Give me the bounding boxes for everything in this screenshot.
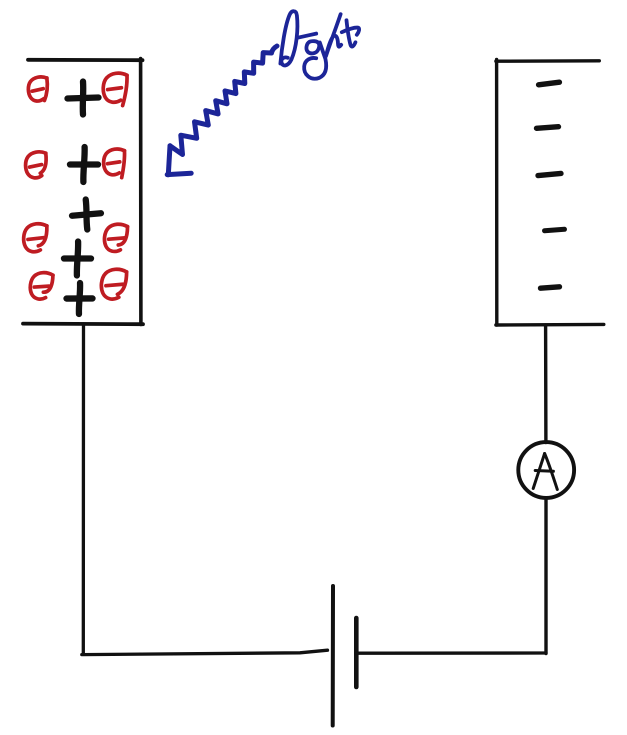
- electron e1 (row1 left): [28, 77, 48, 102]
- arrowhead of light ray: [167, 146, 191, 175]
- charge +3 (row3): [71, 199, 102, 230]
- left plate (photocathode): [23, 59, 143, 325]
- light label (handwritten): [280, 11, 359, 78]
- light ray squiggle (wavy arrow shaft): [170, 46, 277, 155]
- charge +1 (row1): [68, 82, 99, 115]
- negative charge -4: [545, 229, 565, 230]
- electron e3 (row2 left): [25, 152, 47, 179]
- wire from right plate down to ammeter: [544, 325, 548, 443]
- electron e8 (row6 right): [100, 268, 127, 300]
- battery long plate (positive): [331, 586, 335, 726]
- bottom left wire to battery: [82, 650, 328, 654]
- negative charge -2: [537, 127, 559, 129]
- battery short plate (negative): [354, 618, 359, 687]
- charge +2 (row2): [69, 147, 98, 183]
- charge +4 (row5): [63, 241, 91, 276]
- negative charge -5: [541, 287, 560, 288]
- wire from ammeter down to bottom: [544, 498, 547, 654]
- wire from left plate down: [82, 324, 85, 654]
- charge +5 (row7): [66, 283, 93, 315]
- electron e6 (row4 right): [103, 223, 127, 252]
- negative charge -3: [538, 173, 561, 175]
- electron e2 (row1 right): [103, 73, 128, 106]
- electron e7 (row6 left): [29, 271, 53, 300]
- right plate (anode): [496, 60, 604, 326]
- electron e5 (row4 left): [23, 223, 47, 252]
- bottom right wire from battery to ammeter branch: [357, 651, 547, 655]
- ammeter A: [518, 442, 574, 498]
- negative charge -1: [539, 82, 560, 85]
- electron e4 (row2 right): [103, 149, 124, 178]
